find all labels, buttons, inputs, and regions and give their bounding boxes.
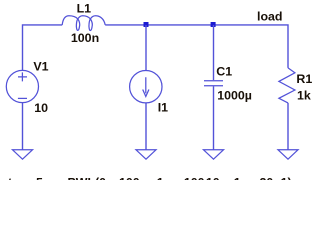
ground under I1: [136, 150, 156, 159]
svg-text:PWL(0: PWL(0: [68, 176, 107, 180]
wire C1 bottom: [213, 86, 215, 150]
svg-text:100m: 100m: [119, 176, 151, 180]
svg-text:5m: 5m: [36, 176, 54, 180]
wire V1 bottom: [22, 103, 24, 150]
voltage source V1: [6, 70, 38, 102]
inductor L1: [62, 16, 105, 31]
wire top rail from L1 right pin to R1 corner: [105, 25, 288, 68]
svg-text:100n: 100n: [71, 31, 99, 45]
wire C1 top: [213, 25, 215, 80]
svg-text:R1: R1: [296, 72, 312, 86]
V1 minus sign: [18, 97, 27, 99]
svg-text:1): 1): [281, 176, 292, 180]
svg-text:1m: 1m: [234, 176, 252, 180]
svg-text:10m: 10m: [206, 176, 231, 180]
node junction at C1: [211, 22, 216, 27]
node junction at I1: [144, 22, 149, 27]
wire top rail from V1 corner to L1 left pin: [23, 25, 63, 71]
wire I1 bottom: [145, 103, 147, 150]
svg-text:10: 10: [34, 101, 48, 115]
V1 plus sign: [18, 72, 27, 81]
svg-text:1m: 1m: [157, 176, 175, 180]
I1 arrow: [143, 77, 149, 96]
svg-text:.tran: .tran: [5, 176, 32, 180]
svg-text:load: load: [257, 10, 282, 24]
svg-text:C1: C1: [216, 65, 232, 79]
svg-text:L1: L1: [77, 2, 92, 16]
wire R1 bottom: [287, 103, 289, 150]
svg-text:1000µ: 1000µ: [217, 88, 252, 102]
svg-text:V1: V1: [33, 60, 48, 74]
current source I1: [130, 71, 162, 103]
svg-text:I1: I1: [158, 101, 168, 115]
capacitor C1 plates: [204, 81, 223, 86]
resistor R1 zigzag: [279, 68, 295, 103]
ground under R1: [278, 150, 298, 159]
ground under V1: [13, 150, 33, 159]
wire I1 top: [145, 25, 147, 70]
svg-text:1k: 1k: [297, 89, 311, 103]
ground under C1: [204, 150, 224, 159]
